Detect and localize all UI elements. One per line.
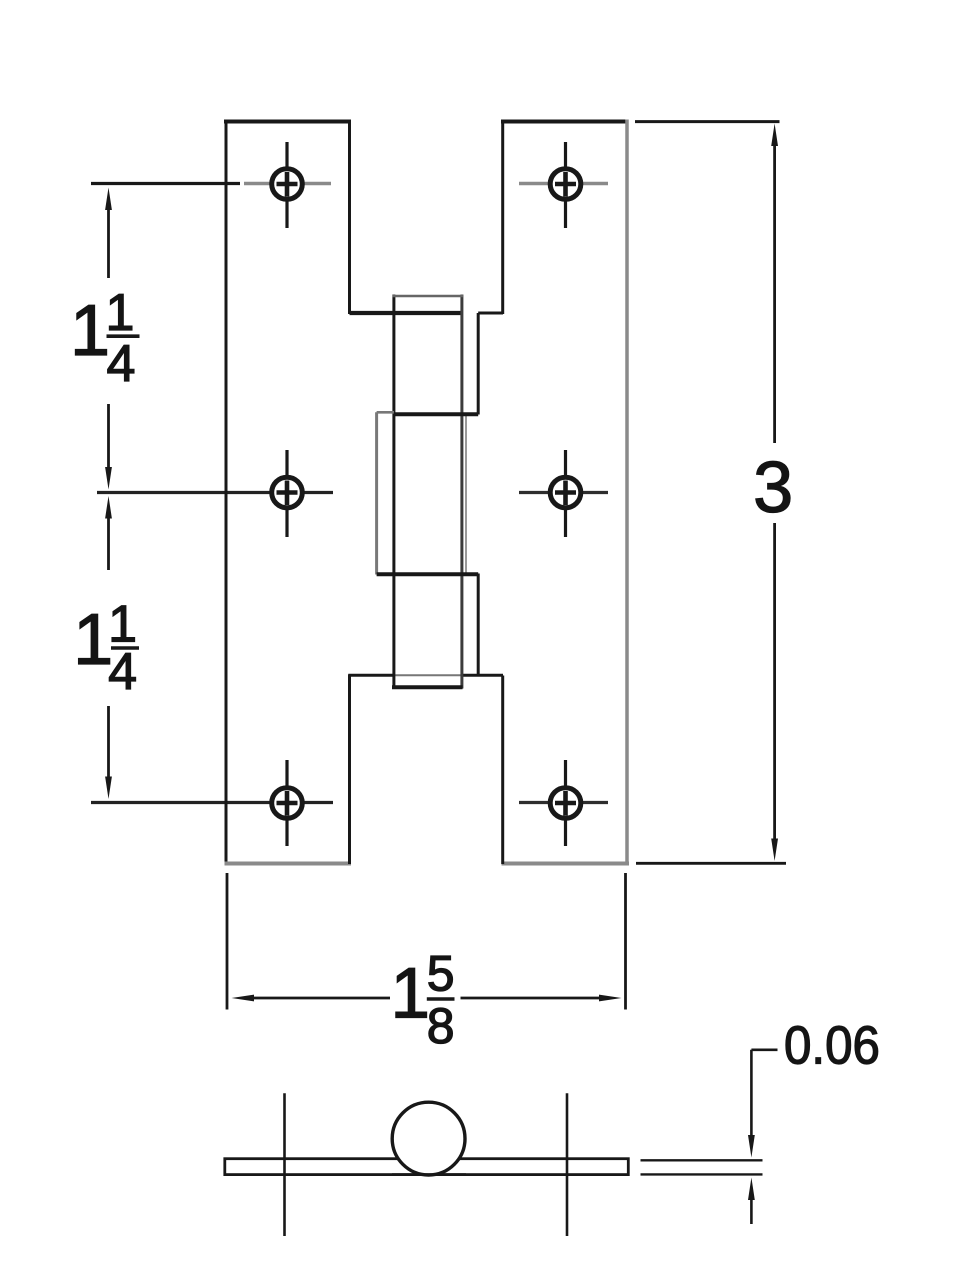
svg-text:1: 1 xyxy=(391,955,431,1034)
svg-text:1: 1 xyxy=(106,284,135,342)
svg-text:4: 4 xyxy=(107,335,136,393)
svg-text:3: 3 xyxy=(753,448,793,528)
svg-text:5: 5 xyxy=(427,946,455,1002)
svg-text:0.06: 0.06 xyxy=(784,1016,880,1076)
svg-text:8: 8 xyxy=(427,998,455,1054)
svg-text:4: 4 xyxy=(108,643,137,701)
svg-text:1: 1 xyxy=(70,291,110,371)
